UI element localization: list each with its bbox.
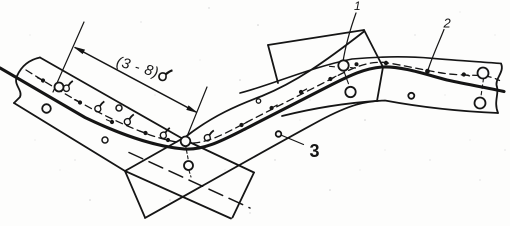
conductor (thick wire) (0, 67, 504, 149)
spacing letter b mark 1 (63, 81, 72, 92)
hole on band left upper (55, 83, 64, 92)
support plate left edge (268, 45, 278, 83)
dashed hole link at peak (330, 66, 359, 86)
band left segment bottom edge (14, 103, 125, 171)
support plate bottom edge (282, 101, 378, 116)
dot 9 (299, 90, 303, 94)
dimension extension line left (53, 22, 84, 92)
leader line for label 1 (343, 13, 356, 62)
band left segment bottom edge extension to cut corner C (125, 171, 231, 219)
small hole on rising top edge (256, 99, 260, 103)
dot 1 (41, 78, 45, 82)
peak lower hole (345, 87, 355, 97)
dot 12 (425, 69, 430, 74)
spacing letter b mark 4 (160, 128, 169, 138)
fastener dots along centerline (41, 61, 466, 142)
band right segment top edge (240, 57, 501, 93)
spacing letter b mark 2 (95, 101, 104, 112)
dot 4 (143, 131, 147, 135)
right lower hole (475, 98, 486, 109)
small hole mid left (116, 105, 122, 111)
dot 8 (270, 106, 274, 110)
hole below bend on plate (184, 161, 193, 170)
dot 3 (110, 120, 114, 124)
dot 7 (239, 123, 243, 127)
support plate at peak: top edge (268, 30, 364, 45)
dashed hole link at lower bend (186, 145, 189, 161)
dash-dot centerline of band (26, 62, 500, 143)
small thick hole right (408, 93, 414, 99)
holes (white circles) (42, 60, 488, 170)
hole at lower bend on band (181, 137, 191, 147)
arrow tails on dots (37, 75, 470, 141)
dot 11b (355, 62, 359, 66)
svg-text:(3 - 8): (3 - 8) (114, 54, 160, 81)
rising segment top edge incl. lower extension (125, 32, 364, 172)
dot 2 (78, 100, 82, 104)
leader line for label 2 (428, 30, 444, 71)
rising segment bottom edge incl. extension and right bottom edge (145, 101, 498, 219)
dot 13 (462, 72, 466, 76)
dimension extension line right (186, 87, 207, 139)
dimension text (3 - 8)b (114, 54, 172, 85)
leader line for label 3 (282, 136, 304, 145)
small hole leader-3 target (276, 131, 282, 137)
rising piece end cut edge A-B (125, 171, 145, 218)
spacing letter b mark 3 (124, 114, 133, 125)
left break line (14, 58, 40, 104)
support plate right cut edge (364, 30, 383, 101)
svg-text:1: 1 (354, 0, 361, 13)
hole on band left lower (42, 104, 51, 113)
dot 10 (328, 77, 332, 81)
small hole below band (102, 137, 108, 143)
svg-text:3: 3 (310, 141, 320, 161)
svg-text:2: 2 (443, 16, 452, 31)
dashed hole link right (481, 79, 484, 98)
peak upper hole (338, 60, 348, 70)
dot 5 (166, 138, 170, 142)
band left segment top edge (40, 58, 184, 140)
right upper hole (478, 68, 489, 79)
dimension arrowheads (75, 48, 84, 54)
dimension line (3-8)b (75, 48, 196, 113)
spacing letter b mark 5 (204, 130, 213, 141)
left piece end cut edge D-C (233, 173, 255, 218)
dot 11 (384, 61, 388, 65)
right break line (496, 64, 502, 114)
band left segment top edge extension to cut corner D (184, 140, 254, 173)
crossing dashed fold line at lower bend (129, 153, 250, 209)
